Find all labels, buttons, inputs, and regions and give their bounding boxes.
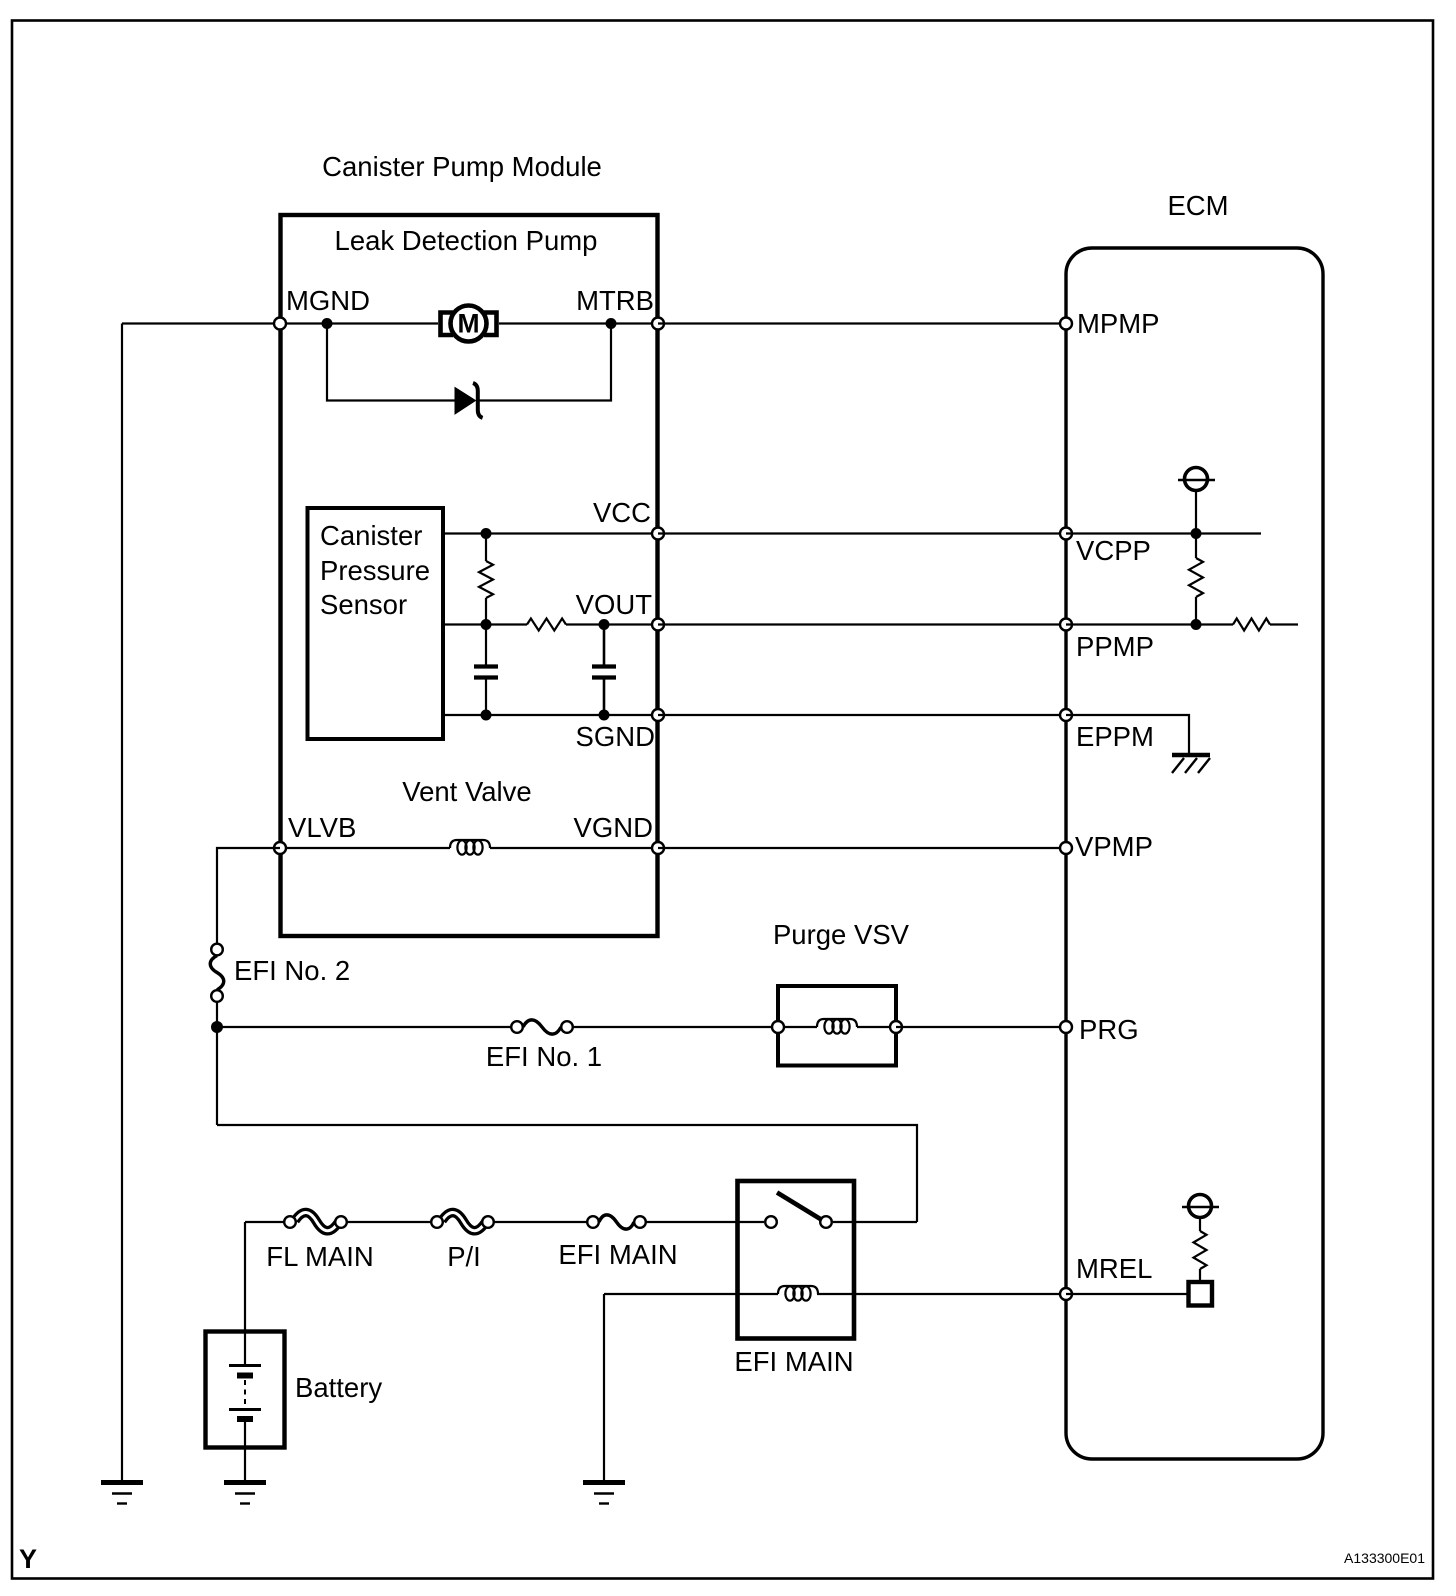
svg-text:VLVB: VLVB xyxy=(288,812,356,843)
svg-text:Leak Detection Pump: Leak Detection Pump xyxy=(335,225,598,256)
wire VLVB to EFI No.2 fuse xyxy=(217,848,280,943)
resistor R1 (sensor pullup) xyxy=(479,534,493,625)
relay switch contacts xyxy=(765,1216,777,1228)
wire power to VCPP rail xyxy=(1195,491,1197,534)
node VOUT right junction dot xyxy=(599,619,610,630)
svg-text:MREL: MREL xyxy=(1076,1253,1152,1284)
node SGND left junction dot xyxy=(481,710,492,721)
svg-text:VOUT: VOUT xyxy=(576,589,653,620)
Purge VSV box U4 xyxy=(778,986,896,1066)
fuse EFI No. 1 xyxy=(486,1020,602,1072)
wire SGND row xyxy=(443,714,658,716)
power symbol B+ (VCPP pullup) xyxy=(1178,468,1215,491)
svg-text:MPMP: MPMP xyxy=(1077,308,1160,339)
wire VCC to VCPP xyxy=(658,532,1066,534)
wire VCPP internal stub xyxy=(1066,532,1261,534)
svg-text:EFI MAIN: EFI MAIN xyxy=(558,1239,677,1270)
svg-text:Canister: Canister xyxy=(320,520,422,551)
svg-text:Vent Valve: Vent Valve xyxy=(402,776,531,807)
ground G1 (left rail) xyxy=(101,1483,143,1504)
pin VCPP xyxy=(1060,528,1072,540)
svg-text:FL MAIN: FL MAIN xyxy=(266,1241,373,1272)
node MGND junction dot xyxy=(322,318,333,329)
fuse EFI No. 2 xyxy=(210,944,350,1002)
svg-text:PRG: PRG xyxy=(1079,1014,1139,1045)
svg-text:PPMP: PPMP xyxy=(1076,631,1154,662)
pin purge VSV left xyxy=(772,1021,784,1033)
svg-text:A133300E01: A133300E01 xyxy=(1344,1550,1425,1566)
relay switch blade xyxy=(777,1193,822,1221)
svg-text:VPMP: VPMP xyxy=(1075,831,1153,862)
wire vent valve row xyxy=(280,847,658,849)
wire battery positive xyxy=(244,1222,246,1331)
pin MREL xyxy=(1060,1288,1072,1300)
svg-text:MTRB: MTRB xyxy=(576,285,654,316)
pin PRG xyxy=(1060,1021,1072,1033)
pin VGND xyxy=(652,842,664,854)
ECM box U2 xyxy=(1066,248,1323,1459)
inductor L2 (purge VSV coil) xyxy=(784,1019,890,1034)
wire MGND-MTRB motor row xyxy=(280,322,658,324)
relay EFI MAIN box K1 xyxy=(738,1181,855,1339)
wire diode branch left xyxy=(327,324,455,401)
pin MTRB xyxy=(652,318,664,330)
svg-text:EFI MAIN: EFI MAIN xyxy=(734,1346,853,1377)
node fuse junction dot xyxy=(211,1021,223,1033)
driver block Q1 xyxy=(1189,1282,1213,1306)
resistor R4 (ECM series) xyxy=(1233,619,1270,631)
svg-text:M: M xyxy=(457,309,479,339)
pin purge VSV right xyxy=(890,1021,902,1033)
svg-text:Canister Pump Module: Canister Pump Module xyxy=(322,151,602,182)
wire VOUT row (sensor to resistor) xyxy=(443,623,527,625)
svg-text:SGND: SGND xyxy=(576,721,655,752)
fusible link P/I xyxy=(431,1213,494,1272)
fuse EFI MAIN xyxy=(558,1215,677,1270)
wire EFI No.2 to junction xyxy=(216,1002,218,1125)
battery cells xyxy=(229,1333,261,1447)
svg-text:VCC: VCC xyxy=(593,497,651,528)
wire battery negative to ground xyxy=(244,1447,246,1482)
svg-text:MGND: MGND xyxy=(286,285,370,316)
node SGND right junction dot xyxy=(599,710,610,721)
wire diode branch right xyxy=(477,324,611,401)
power symbol B+ (MREL pullup) xyxy=(1182,1195,1219,1218)
wire PPMP internal stub xyxy=(1066,623,1233,625)
ground G3 (relay coil) xyxy=(583,1483,625,1504)
wire VGND to VPMP xyxy=(658,847,1066,849)
pin EPPM xyxy=(1060,709,1072,721)
pin SGND xyxy=(652,709,664,721)
svg-text:Battery: Battery xyxy=(295,1372,382,1403)
svg-text:ECM: ECM xyxy=(1167,190,1228,221)
node VCC junction dot xyxy=(481,528,492,539)
wire left rail vertical to ground xyxy=(121,324,123,1483)
wire SGND to EPPM xyxy=(658,714,1066,716)
wire VOUT to PPMP xyxy=(658,623,1066,625)
wire resistor to driver xyxy=(1199,1269,1201,1281)
capacitor C2 xyxy=(592,625,616,716)
Leak Detection Pump box U1 xyxy=(281,215,658,936)
chassis ground G4 (EPPM) xyxy=(1172,755,1210,773)
wire relay coil row xyxy=(604,1293,1060,1295)
svg-text:EFI No. 1: EFI No. 1 xyxy=(486,1041,602,1072)
wire Purge VSV to PRG xyxy=(896,1026,1066,1028)
wire PRG row left xyxy=(217,1026,511,1028)
node VCPP internal dot xyxy=(1191,528,1202,539)
Battery box BT1 xyxy=(206,1332,285,1448)
svg-text:Sensor: Sensor xyxy=(320,589,407,620)
wire after R4 xyxy=(1270,623,1298,625)
wire EPPM internal to chassis ground xyxy=(1066,715,1189,753)
svg-text:VGND: VGND xyxy=(574,812,653,843)
pin PPMP xyxy=(1060,619,1072,631)
node MTRB junction dot xyxy=(606,318,617,329)
svg-text:VCPP: VCPP xyxy=(1076,535,1151,566)
pin MGND xyxy=(274,318,286,330)
fusible link FL MAIN xyxy=(266,1213,373,1272)
pin VCC xyxy=(652,528,664,540)
svg-text:P/I: P/I xyxy=(447,1241,481,1272)
svg-text:Purge VSV: Purge VSV xyxy=(773,919,910,950)
wire battery row xyxy=(245,1221,917,1223)
wire power to resistor xyxy=(1199,1218,1201,1232)
wire junction down to relay switch feed xyxy=(217,1125,917,1222)
motor M1 xyxy=(441,306,497,342)
wire EFI No.1 to Purge VSV xyxy=(573,1026,778,1028)
svg-text:Y: Y xyxy=(19,1544,37,1574)
inductor L3 (relay coil) xyxy=(778,1286,818,1301)
ground G2 (battery) xyxy=(224,1483,266,1504)
node PPMP internal dot xyxy=(1191,619,1202,630)
wire VOUT after resistor xyxy=(566,623,658,625)
pin VLVB xyxy=(274,842,286,854)
wire MTRB to MPMP xyxy=(658,322,1066,324)
wire coil to ground xyxy=(603,1294,605,1482)
wire MREL to driver xyxy=(1066,1293,1188,1295)
svg-text:EPPM: EPPM xyxy=(1076,721,1154,752)
capacitor C1 xyxy=(474,625,498,716)
resistor R3 (ECM pullup) xyxy=(1189,534,1203,625)
pin VOUT xyxy=(652,619,664,631)
inductor L1 (vent valve) xyxy=(450,840,490,855)
pin MPMP xyxy=(1060,318,1072,330)
svg-text:EFI No. 2: EFI No. 2 xyxy=(234,955,350,986)
Canister Pressure Sensor box U3 xyxy=(308,508,444,739)
diode D1 xyxy=(455,383,483,418)
resistor R2 (VOUT series) xyxy=(527,619,566,631)
svg-text:Pressure: Pressure xyxy=(320,555,430,586)
pin VPMP xyxy=(1060,842,1072,854)
resistor R5 (MREL pullup) xyxy=(1194,1231,1207,1269)
wire VCC row xyxy=(443,532,658,534)
wire MGND to left rail xyxy=(122,322,280,324)
node VOUT left junction dot xyxy=(481,619,492,630)
